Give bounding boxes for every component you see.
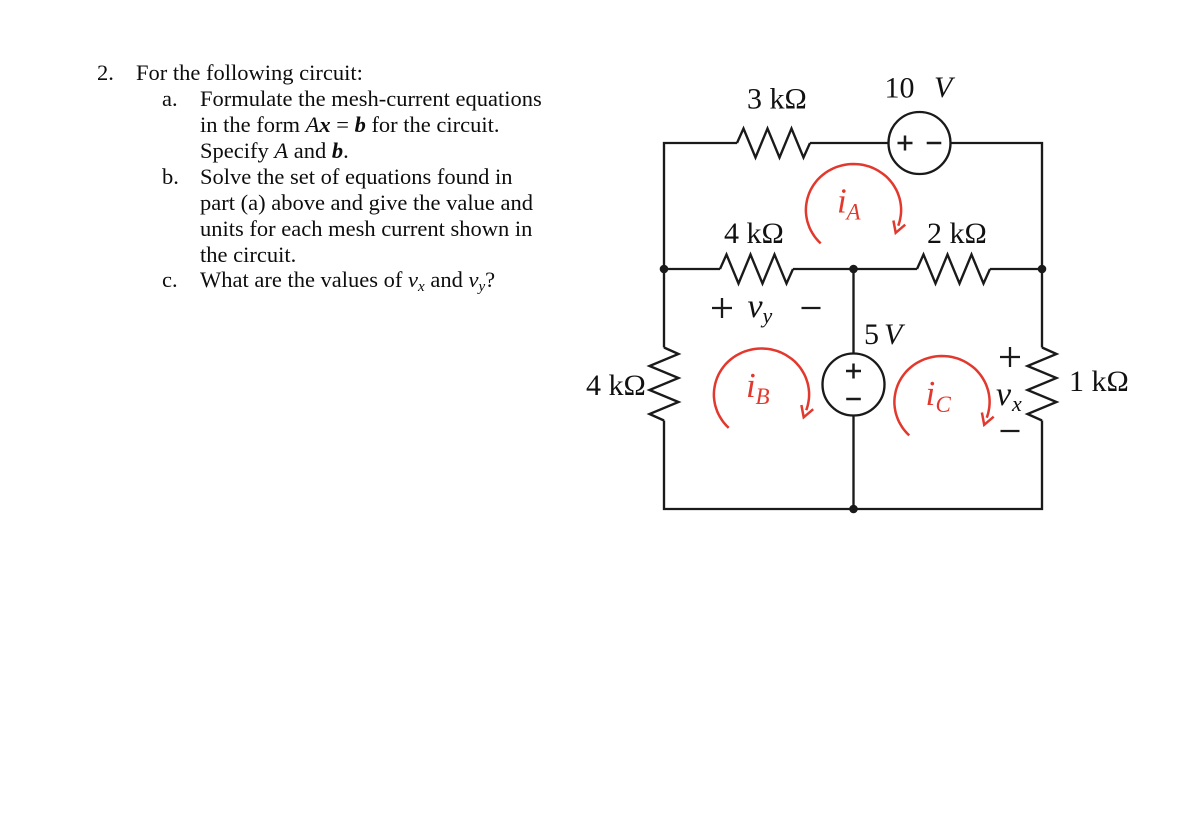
svg-text:v: v [996,376,1012,413]
svg-text:y: y [761,303,773,328]
svg-text:A: A [845,200,862,225]
svg-text:i: i [926,374,936,413]
svg-text:C: C [936,392,952,417]
svg-text:4 kΩ: 4 kΩ [724,217,784,250]
svg-text:i: i [746,366,756,405]
svg-text:v: v [748,288,764,325]
svg-text:5: 5 [864,318,879,351]
svg-text:i: i [837,182,847,221]
svg-text:2 kΩ: 2 kΩ [927,217,987,250]
svg-text:10: 10 [885,72,915,105]
svg-text:3 kΩ: 3 kΩ [747,83,807,116]
svg-text:x: x [1011,391,1022,416]
svg-text:V: V [884,318,906,351]
svg-text:B: B [756,384,770,409]
svg-text:V: V [934,71,956,104]
svg-text:4 kΩ: 4 kΩ [586,369,646,402]
svg-text:1 kΩ: 1 kΩ [1069,365,1129,398]
